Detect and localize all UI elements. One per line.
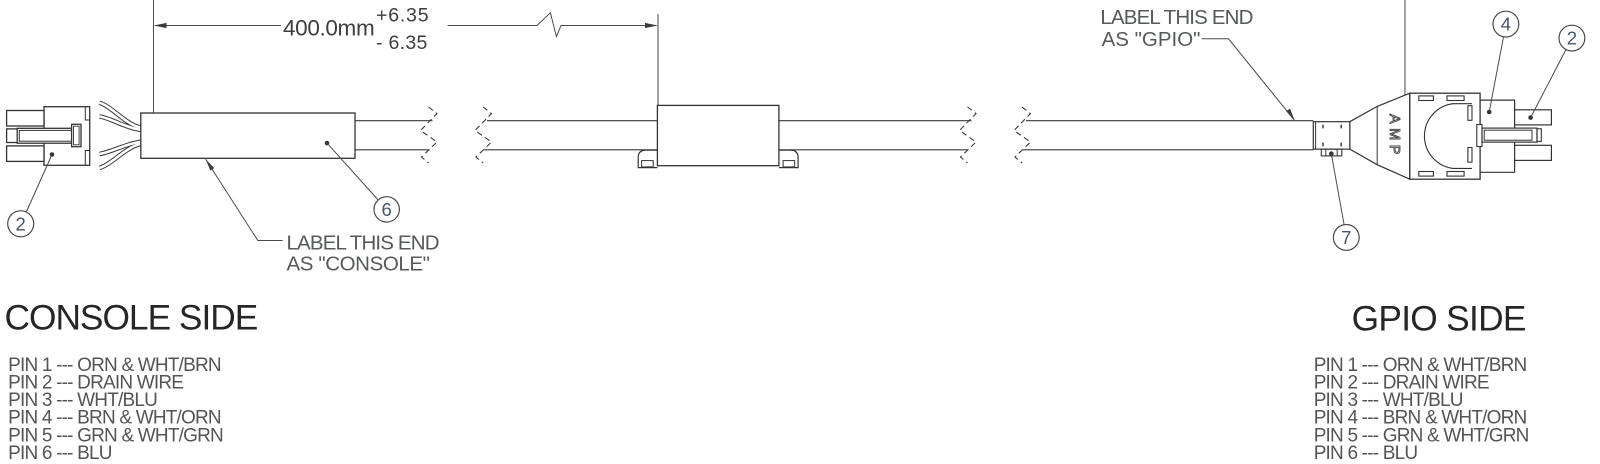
gpio pin list — [1314, 355, 1529, 464]
boot crease — [1376, 106, 1378, 164]
balloon 2 (gpio pins) — [1528, 25, 1585, 120]
svg-text:4: 4 — [1501, 14, 1511, 35]
pin bottom — [1515, 145, 1552, 160]
svg-text:7: 7 — [1341, 227, 1351, 248]
svg-text:AS "CONSOLE": AS "CONSOLE" — [287, 253, 430, 276]
tie tab below — [1321, 149, 1342, 156]
latch bar outer — [1482, 128, 1537, 142]
latch bar inner — [1484, 130, 1532, 140]
svg-text:AS "GPIO": AS "GPIO" — [1102, 28, 1201, 51]
top slot 1 — [1419, 96, 1434, 101]
svg-text:LABEL THIS END: LABEL THIS END — [287, 232, 439, 255]
pin top — [1515, 110, 1552, 125]
svg-text:PIN 6 --- BLU: PIN 6 --- BLU — [1314, 443, 1418, 464]
terminal blade inner — [19, 130, 72, 141]
svg-text:AMP: AMP — [1386, 114, 1402, 159]
break symbol C — [960, 107, 977, 163]
wires fanning from console connector — [100, 103, 141, 168]
svg-text:PIN 6 --- BLU: PIN 6 --- BLU — [8, 443, 112, 464]
svg-text:6: 6 — [382, 199, 392, 220]
svg-text:2: 2 — [1567, 28, 1577, 49]
dimension extension line right (center block) — [657, 14, 659, 105]
tie left inner line — [1315, 122, 1317, 149]
keyway latch slot bottom — [1468, 148, 1472, 163]
blade end bar — [72, 124, 81, 146]
balloon 7 (gpio tie) — [1329, 151, 1359, 250]
balloon 6 (console sleeve) — [325, 141, 400, 222]
svg-text:400.0mm: 400.0mm — [283, 16, 374, 41]
latch tip — [1537, 129, 1541, 142]
dimension arrow left — [154, 23, 167, 28]
body right notch top — [85, 107, 89, 120]
left clip inner — [642, 161, 654, 167]
blade end bar inner — [74, 126, 80, 145]
tie tab inner lines — [1325, 149, 1327, 156]
keyway latch slot top — [1468, 106, 1472, 121]
boot body — [1350, 93, 1410, 179]
body right notch bottom — [85, 151, 89, 166]
dimension line 400.0mm left segment — [155, 25, 281, 27]
svg-text:GPIO SIDE: GPIO SIDE — [1352, 300, 1526, 339]
terminal blade outer — [17, 128, 74, 143]
svg-text:CONSOLE SIDE: CONSOLE SIDE — [5, 298, 258, 337]
connector body — [44, 107, 90, 166]
console label leader arrow — [206, 159, 283, 240]
latch cap — [1477, 125, 1482, 147]
console pin list — [8, 355, 223, 464]
svg-text:+6.35: +6.35 — [376, 4, 429, 26]
break symbol B — [475, 107, 492, 163]
console connector J1 (left receptacle) — [7, 107, 90, 166]
top-left tab — [7, 111, 44, 127]
cable section C (center block to third break) — [779, 120, 972, 122]
break symbol D — [1014, 107, 1031, 163]
center ferrite block — [638, 105, 798, 167]
D-shaped keyway — [1424, 104, 1472, 169]
balloon 4 (gpio connector body) — [1487, 11, 1519, 114]
svg-text:LABEL THIS END: LABEL THIS END — [1100, 6, 1252, 29]
left clip foot — [638, 150, 657, 168]
gpio connector body — [1410, 93, 1552, 179]
tie body — [1313, 122, 1350, 149]
middle-left tab — [7, 129, 19, 143]
dimension extension line far right (gpio boot face) — [1404, 0, 1406, 115]
bottom slot 1 — [1419, 172, 1434, 177]
rear extension block — [1480, 100, 1515, 172]
tie inner ticks — [1322, 125, 1324, 129]
cable section A (jacket to first break) — [355, 120, 433, 122]
cable tie marker at gpio end — [1313, 122, 1350, 156]
right clip inner — [783, 161, 795, 167]
break symbol A — [421, 107, 438, 163]
cable jacket / console label sleeve — [141, 113, 355, 158]
svg-text:2: 2 — [16, 213, 26, 234]
dimension arrow right — [645, 23, 658, 28]
right clip foot — [779, 150, 798, 168]
balloon 2 (console connector) — [8, 152, 55, 237]
cable section B (second break to center block) — [487, 120, 657, 122]
gpio label leader arrow — [1202, 39, 1295, 121]
bottom slot 2 — [1447, 172, 1464, 177]
bottom-left tab — [7, 146, 44, 162]
gpio strain relief boot — [1350, 93, 1410, 179]
dimension extension line left (console end) — [153, 0, 155, 115]
main body — [1410, 93, 1480, 179]
cable section D (fourth break to gpio end) — [1026, 120, 1313, 122]
dimension line 400.0mm right segment with jog — [448, 13, 657, 37]
block body — [657, 105, 779, 165]
svg-text:- 6.35: - 6.35 — [376, 32, 428, 54]
top slot 2 — [1447, 96, 1464, 101]
